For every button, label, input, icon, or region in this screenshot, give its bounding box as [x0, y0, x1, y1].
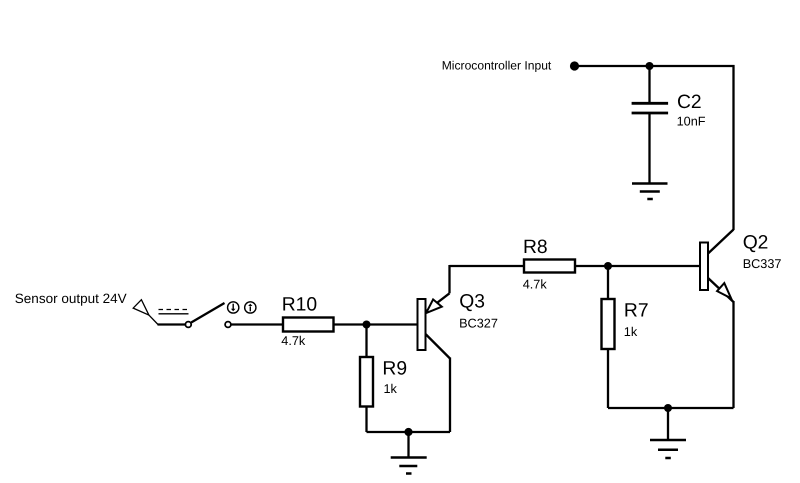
- svg-text:10nF: 10nF: [677, 115, 706, 129]
- svg-text:1k: 1k: [624, 325, 638, 339]
- svg-text:R10: R10: [282, 295, 317, 316]
- label R9 1k: [384, 382, 398, 396]
- ground under R9 rail: [391, 458, 427, 474]
- wire R8 rail: [450, 265, 609, 267]
- transistor Q3 base bar: [418, 299, 426, 350]
- label Sensor output 24V: [15, 291, 127, 306]
- switch actuation down arrow circle: [228, 302, 239, 313]
- node terminal dot Microcontroller Input: [570, 61, 579, 70]
- wire R9 top lead: [365, 325, 367, 358]
- wire Q2 collector vertical: [732, 65, 734, 230]
- svg-text:BC337: BC337: [743, 257, 782, 271]
- wire Q3 collector vertical: [449, 358, 451, 433]
- resistor R10: [283, 318, 334, 332]
- wire Q3 emitter riser: [448, 265, 450, 293]
- wire Q2 base: [608, 265, 700, 267]
- svg-text:R9: R9: [382, 359, 407, 380]
- label BC337: [743, 257, 782, 271]
- node junction dot ground tap right: [664, 404, 672, 412]
- sensor mechanical dashed link: [159, 309, 189, 311]
- resistor R7: [602, 299, 615, 349]
- wire top horizontal: [575, 65, 735, 67]
- wire R7 bottom lead: [607, 349, 609, 408]
- svg-text:Microcontroller Input: Microcontroller Input: [442, 59, 552, 73]
- label BC327: [459, 316, 498, 330]
- svg-text:1k: 1k: [384, 382, 398, 396]
- node junction dot R7 top: [604, 262, 612, 270]
- svg-text:R7: R7: [624, 301, 649, 322]
- transistor Q2 emitter arrow: [717, 283, 731, 298]
- wire R7 top lead: [607, 266, 609, 299]
- label R10 4.7k: [281, 334, 306, 348]
- label R8 4.7k: [523, 278, 548, 292]
- wire sensor triangle link: [149, 315, 158, 324]
- wire ground stem left: [407, 432, 409, 457]
- wire Q3 collector diagonal: [426, 334, 451, 359]
- wire C2 top lead: [648, 66, 650, 103]
- resistor R8: [524, 260, 575, 273]
- wire R9 bottom lead: [365, 407, 367, 433]
- wire ground stem right: [667, 408, 669, 440]
- node junction dot R10 right: [363, 321, 371, 329]
- node junction dot C2 top: [646, 62, 654, 70]
- capacitor C2: [632, 103, 669, 113]
- switch contact circle left: [185, 322, 191, 328]
- node Microcontroller Input label: [442, 59, 552, 73]
- label Q2: [743, 233, 769, 254]
- switch blade: [191, 303, 224, 323]
- svg-text:Sensor output 24V: Sensor output 24V: [15, 291, 127, 306]
- label R10: [282, 295, 317, 316]
- resistor R9: [360, 357, 373, 407]
- ground under C2: [632, 184, 668, 200]
- wire R10 left lead: [231, 323, 283, 325]
- wire bottom rail R9 to Q3 collector: [367, 431, 451, 433]
- svg-text:R8: R8: [523, 237, 548, 258]
- label R7 1k: [624, 325, 638, 339]
- sensor mechanical solid link: [159, 313, 189, 315]
- wire Q3 emitter diagonal: [425, 293, 450, 312]
- node junction dot ground tap left: [404, 428, 412, 436]
- switch actuation up arrow circle: [245, 302, 256, 313]
- label R7: [624, 301, 649, 322]
- ground under R7 rail: [650, 440, 686, 458]
- wire R10 right lead: [334, 323, 367, 325]
- transistor Q2 base bar: [700, 243, 708, 291]
- wire Q3 base: [367, 323, 418, 325]
- wire bottom rail R7 to Q2 emitter: [608, 407, 734, 409]
- svg-text:Q3: Q3: [459, 292, 485, 313]
- transistor Q3 emitter arrow: [426, 299, 442, 313]
- wire Q2 emitter vertical: [732, 301, 734, 408]
- svg-text:4.7k: 4.7k: [523, 278, 548, 292]
- wire switch left: [158, 323, 186, 325]
- svg-text:4.7k: 4.7k: [281, 334, 306, 348]
- svg-text:Q2: Q2: [743, 233, 769, 254]
- wire Q2 collector diagonal: [708, 230, 734, 255]
- sensor actuator triangle: [133, 300, 149, 315]
- label C2: [677, 92, 702, 113]
- label R8: [523, 237, 548, 258]
- label 10nF: [677, 115, 706, 129]
- wire Q2 emitter diagonal: [708, 278, 734, 303]
- label Q3: [459, 292, 485, 313]
- label R9: [382, 359, 407, 380]
- svg-text:BC327: BC327: [459, 316, 498, 330]
- switch contact circle right: [225, 322, 231, 328]
- svg-text:C2: C2: [677, 92, 702, 113]
- wire C2 bottom lead: [648, 113, 650, 183]
